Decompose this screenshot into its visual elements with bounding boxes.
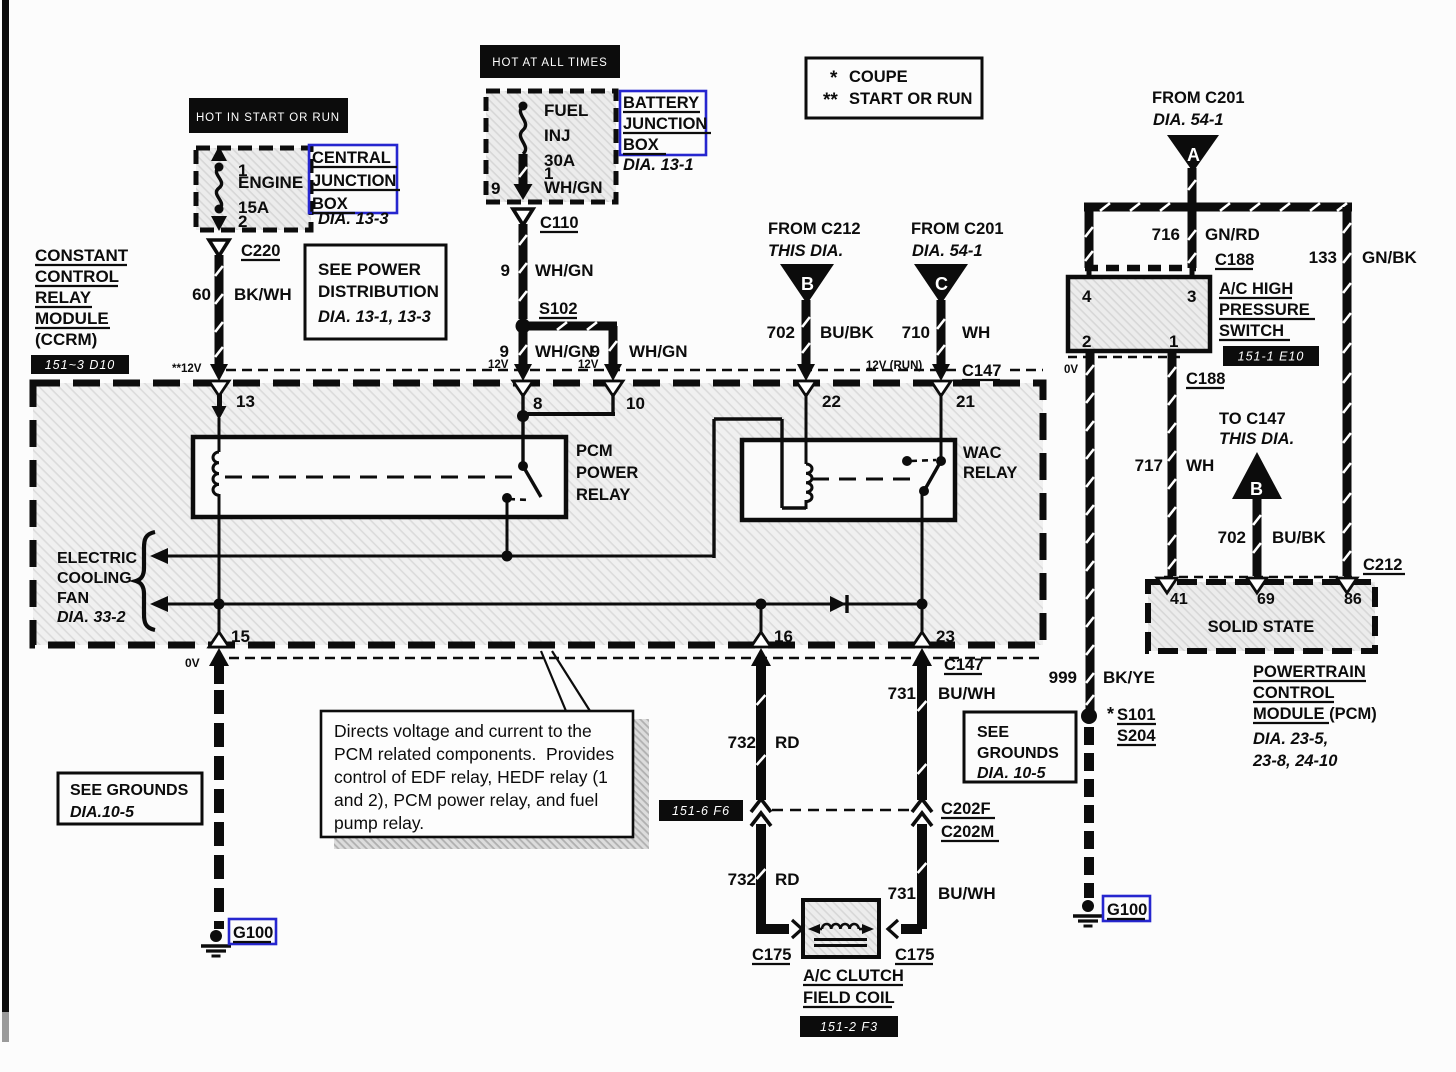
wire 60 BK/WH [215,255,224,366]
PCM relay coil [213,452,219,495]
svg-text:MODULE: MODULE [35,309,109,328]
svg-text:SEE POWER: SEE POWER [318,260,421,279]
junction line2 at WAC output [917,599,928,610]
wire WAC output down to pin 23 [921,491,924,636]
junction line2 at pin13 wire [214,599,225,610]
svg-text:12V: 12V [578,359,599,371]
svg-text:ELECTRIC: ELECTRIC [57,550,137,567]
ground G100 left [210,930,222,942]
wire from A to bus [1188,168,1197,203]
svg-text:0V: 0V [185,656,200,670]
svg-text:DIA. 54-1: DIA. 54-1 [1153,111,1224,129]
svg-text:C147: C147 [962,362,1001,380]
svg-text:151-1 E10: 151-1 E10 [1238,350,1305,364]
svg-text:CENTRAL: CENTRAL [312,149,391,167]
svg-text:PCM related components. Provi: PCM related components. Provides [334,744,614,764]
EDF output line 2 with left arrow and diode [150,596,168,612]
wire PCM relay output down to EDF line [506,498,509,556]
central junction box fuse outline [196,148,311,230]
svg-text:CONSTANT: CONSTANT [35,246,129,265]
svg-text:POWERTRAIN: POWERTRAIN [1253,663,1366,681]
svg-text:THIS DIA.: THIS DIA. [1219,430,1294,448]
svg-text:716: 716 [1152,225,1180,244]
svg-text:C: C [935,274,948,294]
svg-text:717: 717 [1135,456,1163,475]
PCM relay actuation dashed line [225,476,518,479]
wire 717 WH pin1 down to PCM [1168,351,1177,576]
svg-text:control of EDF relay, HEDF rel: control of EDF relay, HEDF relay (1 [334,767,608,787]
junction line2 at pin16 drop [756,599,767,610]
svg-text:0V: 0V [1064,364,1078,376]
PCM pin 41 [1157,578,1177,593]
svg-text:16: 16 [774,627,793,646]
CCRM pin 16 [751,632,771,647]
svg-text:SWITCH: SWITCH [1219,322,1284,340]
svg-text:GROUNDS: GROUNDS [977,745,1059,762]
svg-text:702: 702 [1218,528,1246,547]
svg-text:151-2 F3: 151-2 F3 [820,1020,878,1034]
ground G100 right [1082,900,1094,912]
WAC relay actuation dashed line [812,478,918,481]
svg-text:C188: C188 [1215,251,1254,269]
svg-text:A: A [1187,145,1200,165]
wire A continues to pin 3 [1188,207,1197,268]
wire 731 BU/WH upper segment [912,648,932,666]
svg-text:DIA. 10-5: DIA. 10-5 [977,765,1047,782]
tie line joining pins 8 and 10 [521,393,524,466]
wire 702 BU/BK to PCM [1253,497,1262,576]
label G100 left [229,919,276,944]
page left edge scan bar [2,0,9,1012]
svg-text:DIA. 54-1: DIA. 54-1 [912,242,983,260]
svg-text:GN/RD: GN/RD [1205,225,1260,244]
svg-text:WH: WH [1186,456,1214,475]
svg-text:**12V: **12V [172,363,202,375]
svg-text:WH/GN: WH/GN [544,178,603,197]
svg-text:G100: G100 [233,924,273,942]
svg-text:FROM C201: FROM C201 [1152,89,1245,107]
svg-text:RELAY: RELAY [576,486,630,504]
dashed connector line C212 [1164,576,1352,579]
svg-text:732: 732 [728,870,756,889]
connector C202 on wire 731 [912,799,932,812]
svg-text:BU/BK: BU/BK [1272,528,1327,547]
svg-text:2: 2 [1082,332,1091,351]
svg-text:HOT AT ALL TIMES: HOT AT ALL TIMES [492,57,607,69]
WAC relay box [742,440,955,520]
svg-text:1: 1 [1169,332,1178,351]
A/C clutch coil winding with arrows [808,924,820,934]
note box SEE POWER DISTRIBUTION [305,245,446,339]
junction PCM relay output on line 1 [502,551,513,562]
connector C110 [513,209,533,225]
PCM relay switch [518,461,528,471]
svg-text:S102: S102 [539,300,578,318]
ground wire from pin 15 [209,648,229,666]
svg-text:23-8, 24-10: 23-8, 24-10 [1252,752,1338,770]
svg-text:MODULE (PCM): MODULE (PCM) [1253,705,1377,723]
wire 702 BU/BK into pin 22 [802,300,811,366]
svg-text:60: 60 [192,285,211,304]
svg-text:702: 702 [767,323,795,342]
connector C202 on wire 732 [751,799,771,812]
fuse FUEL INJ 30A [519,102,528,111]
PCM solid state box [1148,582,1375,651]
svg-text:FROM C212: FROM C212 [768,220,861,238]
svg-text:DIA.10-5: DIA.10-5 [70,804,135,821]
CCRM pin 13 [209,381,229,396]
grid ref 151-2 F3 [800,1016,898,1037]
svg-text:69: 69 [1257,591,1275,608]
wire 732 RD lower segment [756,824,766,929]
svg-text:RD: RD [775,870,800,889]
junction pins 8-10 [517,410,529,422]
connector C175 right [888,920,898,938]
electric cooling fan brace [136,532,155,630]
dashed connector line C188 upper [1085,265,1196,272]
label HOT IN START OR RUN [189,98,348,133]
svg-text:BOX: BOX [623,136,659,154]
svg-text:(CCRM): (CCRM) [35,330,97,349]
svg-text:8: 8 [533,394,542,413]
svg-text:SEE: SEE [977,724,1009,741]
svg-text:3: 3 [1187,287,1196,306]
svg-text:86: 86 [1344,591,1362,608]
svg-text:12V (RUN): 12V (RUN) [866,360,922,372]
svg-text:CONTROL: CONTROL [35,267,119,286]
svg-text:151-6 F6: 151-6 F6 [672,804,730,818]
WAC relay coil [806,464,812,502]
svg-text:FROM C201: FROM C201 [911,220,1004,238]
svg-text:A/C HIGH: A/C HIGH [1219,280,1293,298]
CCRM pin 15 [209,632,229,647]
dashed connector line C188 lower [1068,356,1180,359]
svg-text:DISTRIBUTION: DISTRIBUTION [318,282,439,301]
svg-text:DIA. 13-1, 13-3: DIA. 13-1, 13-3 [318,308,431,326]
callout pointer lines [541,651,566,711]
svg-text:CONTROL: CONTROL [1253,684,1335,702]
svg-text:C147: C147 [944,656,983,674]
bus wire 716 GN/RD horizontal [1084,203,1352,212]
svg-text:C202M: C202M [941,823,994,841]
wire 133 GN/BK right drop [1343,207,1352,576]
svg-text:12V: 12V [488,359,509,371]
svg-text:B: B [1250,479,1263,499]
svg-text:and 2), PCM power relay, and f: and 2), PCM power relay, and fuel [334,790,598,810]
connector C147 at pin 21 [958,360,1006,377]
svg-text:SEE GROUNDS: SEE GROUNDS [70,782,189,799]
svg-text:13: 13 [236,392,255,411]
A/C clutch field coil box [803,900,879,957]
svg-text:WH/GN: WH/GN [535,261,594,280]
svg-text:133: 133 [1309,248,1337,267]
svg-text:JUNCTION: JUNCTION [312,172,396,190]
svg-text:23: 23 [936,627,955,646]
svg-text:999: 999 [1049,668,1077,687]
svg-text:710: 710 [902,323,930,342]
wire branch from S102 to pin 10 [528,322,617,331]
svg-text:INJ: INJ [544,126,570,145]
PCM power relay box [193,437,566,517]
wire pin 22 to WAC coil [805,393,808,464]
svg-text:Directs voltage and current to: Directs voltage and current to the [334,721,592,741]
svg-text:S101: S101 [1117,706,1156,724]
svg-text:RELAY: RELAY [963,464,1017,482]
note box SEE GROUNDS right [964,712,1076,782]
svg-text:4: 4 [1082,287,1092,306]
splice S101 S204 [1081,708,1097,724]
svg-text:ENGINE: ENGINE [238,173,303,192]
svg-text:BU/WH: BU/WH [938,884,996,903]
fuse ENGINE 15A [211,146,227,161]
svg-text:BU/BK: BU/BK [820,323,875,342]
wire 9 WH/GN from S102 to pin 8 [519,332,528,366]
label BATTERY JUNCTION BOX [620,91,706,155]
svg-text:FAN: FAN [57,590,89,607]
svg-text:15: 15 [231,627,250,646]
svg-text:151~3 D10: 151~3 D10 [45,358,116,372]
svg-text:BK/YE: BK/YE [1103,668,1155,687]
svg-text:9: 9 [501,261,510,280]
svg-text:DIA. 13-1: DIA. 13-1 [623,156,694,174]
svg-text:G100: G100 [1107,901,1147,919]
stub and arrow below pin 13 [217,394,222,407]
svg-text:pump relay.: pump relay. [334,813,424,833]
wire drop to pin 4 [1085,207,1094,268]
label CENTRAL JUNCTION BOX [309,145,397,213]
svg-text:JUNCTION: JUNCTION [623,115,707,133]
svg-text:9: 9 [491,179,500,198]
svg-text:WH/GN: WH/GN [629,342,688,361]
svg-text:HOT IN START OR RUN: HOT IN START OR RUN [196,112,340,124]
thin dashed line below CCRM bottom border [229,657,1043,660]
svg-text:C175: C175 [752,946,791,964]
svg-text:RD: RD [775,733,800,752]
label HOT AT ALL TIMES [480,45,620,78]
connector C175 left [792,920,802,938]
CCRM module outline box [33,383,1043,645]
svg-text:COOLING: COOLING [57,570,132,587]
svg-text:WAC: WAC [963,444,1002,462]
svg-text:732: 732 [728,733,756,752]
wire 710 WH into pin 21 [937,300,946,366]
svg-text:22: 22 [822,392,841,411]
svg-text:COUPE: COUPE [849,68,908,86]
svg-text:BK/WH: BK/WH [234,285,292,304]
grid ref 151-6 F6 [659,800,743,821]
svg-text:*: * [1107,704,1114,724]
svg-text:C212: C212 [1363,556,1402,574]
CCRM pin 22 [796,381,816,396]
svg-text:POWER: POWER [576,464,638,482]
WAC relay switch [902,456,912,466]
svg-text:PCM: PCM [576,442,613,460]
svg-text:731: 731 [888,684,916,703]
svg-text:THIS DIA.: THIS DIA. [768,242,843,260]
PCM pin 86 [1337,578,1357,593]
svg-text:WH: WH [962,323,990,342]
svg-text:C188: C188 [1186,370,1225,388]
ground wire below S101 [1084,727,1094,745]
svg-text:DIA. 23-5,: DIA. 23-5, [1253,730,1328,748]
note box COUPE / START OR RUN [806,58,982,118]
wire pin 21 to WAC switch [940,393,943,461]
battery junction box fuse outline [486,91,616,202]
diode on line 2 [830,596,846,612]
svg-text:RELAY: RELAY [35,288,92,307]
svg-text:FUEL: FUEL [544,101,588,120]
svg-text:10: 10 [626,394,645,413]
svg-text:731: 731 [888,884,916,903]
step wire from line 1 up to WAC coil [712,419,715,558]
CCRM pin 8 [513,381,533,396]
wire line2 drop to pin 16 [760,604,763,636]
svg-text:C220: C220 [241,242,280,260]
svg-text:C175: C175 [895,946,934,964]
svg-text:*: * [830,68,838,89]
svg-text:PRESSURE: PRESSURE [1219,301,1310,319]
svg-text:**: ** [823,90,838,111]
svg-text:21: 21 [956,392,975,411]
explanation box shadow [634,719,649,843]
EDF output line 1 with left arrow [150,548,168,564]
PCM pin 69 [1247,578,1267,593]
svg-text:BU/WH: BU/WH [938,684,996,703]
svg-text:A/C CLUTCH: A/C CLUTCH [803,967,904,985]
explanation text box [321,711,633,837]
connector C220 [209,240,229,256]
svg-text:BATTERY: BATTERY [623,94,699,112]
grid ref 151~3 D10 [31,355,129,374]
wire 731 BU/WH lower segment [917,824,927,929]
svg-text:2: 2 [238,212,247,231]
A/C high pressure switch box [1068,277,1210,351]
svg-text:START OR RUN: START OR RUN [849,90,972,108]
CCRM pin 21 [931,381,951,396]
svg-text:C202F: C202F [941,800,991,818]
svg-text:TO C147: TO C147 [1219,410,1286,428]
wire 9 WH/GN from C110 to S102 [519,224,528,319]
label G100 right [1103,896,1150,921]
svg-text:SOLID STATE: SOLID STATE [1208,618,1315,636]
grid ref 151-1 E10 [1223,346,1319,366]
note box SEE GROUNDS left [58,773,202,824]
CCRM pin 10 [603,381,623,396]
svg-text:41: 41 [1170,591,1188,608]
CCRM pin 23 [912,632,932,647]
svg-text:B: B [801,274,814,294]
svg-text:DIA. 13-3: DIA. 13-3 [318,210,389,228]
thin dashed line above CCRM top border [226,369,1043,372]
wire pin13 through PCM relay coil to pin 15 [218,418,221,452]
wire 732 RD upper segment [751,648,771,666]
svg-text:GN/BK: GN/BK [1362,248,1418,267]
svg-text:FIELD COIL: FIELD COIL [803,989,895,1007]
dashed separation line C202 [772,809,911,812]
wire 999 BK/YE pin2 down to S101 [1086,351,1095,712]
svg-text:S204: S204 [1117,727,1156,745]
svg-text:DIA. 33-2: DIA. 33-2 [57,609,126,626]
svg-text:C110: C110 [540,214,579,232]
